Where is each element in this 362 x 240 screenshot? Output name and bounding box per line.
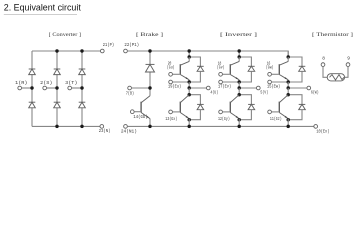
upper diode return wire: [239, 71, 251, 82]
inverter leg V P1 bus junction dot: [237, 49, 240, 52]
lower gate terminal 11(Gz): [268, 110, 272, 114]
column wire sense to output: [287, 82, 289, 88]
brake gate wire 14(Gb): [130, 110, 134, 114]
inverter leg V bridge junction dot: [237, 55, 240, 58]
upper diode return wire: [189, 71, 200, 82]
lower IGBT QV-: [230, 95, 239, 119]
svg-text:1(R): 1(R): [15, 80, 27, 86]
thermistor lead wires: [323, 66, 348, 77]
lower IGBT QW-: [279, 95, 288, 119]
upper gate terminal 20(Gu): [169, 72, 173, 76]
svg-text:(Gv): (Gv): [217, 65, 225, 71]
inverter leg U top bridge wire: [189, 51, 200, 66]
converter leg 3 column wire: [81, 51, 83, 69]
upper freewheel diode DU+: [197, 66, 204, 71]
svg-text:[ Inverter ]: [ Inverter ]: [220, 32, 257, 38]
svg-text:2. Equivalent circuit: 2. Equivalent circuit: [4, 2, 81, 12]
lower freewheel diode DU-: [197, 104, 204, 109]
terminal 7(B): [128, 86, 132, 90]
thermistor terminal a: [321, 63, 325, 67]
upper IGBT QU+ collector wire: [188, 57, 190, 62]
upper gate terminal 16(Gw): [268, 72, 272, 76]
lower emitter wire: [287, 119, 289, 127]
lower gate terminal 12(Gy): [219, 110, 223, 114]
svg-text:15(Ew): 15(Ew): [267, 84, 280, 90]
svg-text:[ Thermistor ]: [ Thermistor ]: [312, 32, 353, 38]
converter upper diode D3: [54, 69, 61, 75]
lower diode return junction dot: [237, 118, 240, 121]
node W output junction: [286, 86, 289, 89]
upper IGBT QV+ collector wire: [238, 57, 240, 62]
leg W N1 junction dot: [286, 125, 289, 128]
node U sense junction: [187, 80, 190, 83]
node B junction: [148, 86, 151, 89]
svg-text:19(Eu): 19(Eu): [168, 84, 181, 90]
upper emitter sense terminal 19(Eu): [169, 80, 173, 84]
terminal 10(Ex) on N1 bus: [314, 125, 318, 129]
lower diode return junction dot: [286, 118, 289, 121]
svg-text:[ Converter ]: [ Converter ]: [49, 32, 81, 38]
column wire output to lower bridge: [188, 88, 190, 95]
upper emitter wire: [188, 80, 190, 82]
svg-text:(Gw): (Gw): [266, 65, 274, 71]
upper IGBT QV+: [230, 61, 239, 79]
converter N bus wire: [32, 125, 100, 127]
upper IGBT QU+: [180, 61, 189, 79]
terminal 21(P): [100, 49, 104, 53]
node 2(S) junction: [55, 86, 58, 89]
inverter leg W top bridge wire: [288, 51, 302, 66]
svg-text:6(W): 6(W): [311, 90, 319, 96]
upper freewheel diode DV+: [248, 66, 255, 71]
upper IGBT QW+: [279, 61, 288, 79]
svg-text:5(V): 5(V): [260, 90, 268, 96]
lower IGBT QU-: [180, 95, 189, 119]
svg-text:24(N1): 24(N1): [121, 129, 137, 135]
lower diode return junction dot: [187, 118, 190, 121]
node W sense junction: [286, 80, 289, 83]
lower freewheel diode DV-: [248, 104, 255, 109]
terminal 2(S): [43, 86, 47, 90]
upper emitter wire: [287, 80, 289, 82]
terminal 22(P1): [124, 49, 128, 53]
converter lower diode D4: [54, 102, 61, 108]
output terminal 4(U): [189, 87, 206, 89]
converter N bus junction dots: [55, 125, 58, 128]
column wire output to lower bridge: [238, 88, 240, 95]
upper freewheel diode DW+: [299, 66, 306, 71]
upper emitter sense terminal 15(Ew): [268, 80, 272, 84]
svg-text:4(U): 4(U): [210, 90, 218, 96]
svg-text:21(P): 21(P): [103, 42, 114, 48]
thermistor body: [327, 74, 344, 81]
brake freewheel diode: [146, 64, 155, 72]
upper emitter sense terminal 17(Ev): [219, 80, 223, 84]
svg-text:3(T): 3(T): [65, 80, 77, 86]
node V sense junction: [237, 80, 240, 83]
upper emitter wire: [238, 80, 240, 82]
upper gate terminal 18(Gv): [219, 72, 223, 76]
terminal 1(R): [18, 86, 22, 90]
svg-text:8: 8: [322, 56, 325, 62]
lower gate terminal 13(Gx): [169, 110, 173, 114]
brake column wire: [149, 51, 151, 64]
brake P1 junction dot: [148, 49, 151, 52]
inverter leg U bridge junction dot: [187, 55, 190, 58]
svg-text:13(Gx): 13(Gx): [165, 116, 177, 122]
upper diode return wire: [288, 71, 302, 82]
node 1(R) junction: [30, 86, 33, 89]
converter upper diode D1: [29, 69, 36, 75]
lower bridge wire: [288, 95, 302, 105]
lower diode return wire: [239, 110, 251, 120]
svg-text:22(P1): 22(P1): [124, 42, 139, 48]
upper IGBT QW+ collector wire: [287, 57, 289, 62]
node V output junction: [237, 86, 240, 89]
P1 bus wire (brake to inverter): [127, 51, 288, 57]
converter P bus wire: [32, 50, 101, 52]
converter leg 1 column wire: [31, 51, 33, 69]
svg-text:14(Gb): 14(Gb): [133, 114, 147, 120]
output terminal 6(W): [288, 87, 307, 89]
svg-text:7(B): 7(B): [126, 90, 134, 96]
svg-text:17(Ev): 17(Ev): [218, 84, 231, 90]
lower diode return wire: [288, 110, 302, 120]
svg-text:12(Gy): 12(Gy): [218, 116, 230, 122]
lower bridge junction dot: [237, 93, 240, 96]
N1 bus wire: [127, 125, 313, 127]
lower emitter wire: [238, 119, 240, 127]
title underline: [4, 13, 77, 15]
leg U N1 junction dot: [187, 125, 190, 128]
svg-text:(Gu): (Gu): [167, 65, 175, 71]
leg V N1 junction dot: [237, 125, 240, 128]
svg-text:2(S): 2(S): [40, 80, 52, 86]
column wire output to lower bridge: [287, 88, 289, 95]
lower bridge junction dot: [187, 93, 190, 96]
lower diode return wire: [189, 110, 200, 120]
node U output junction: [187, 86, 190, 89]
svg-text:11(Gz): 11(Gz): [270, 116, 282, 122]
converter lower diode D2: [29, 102, 36, 108]
inverter leg V top bridge wire: [239, 51, 251, 66]
lower freewheel diode DW-: [299, 104, 306, 109]
lower emitter wire: [188, 119, 190, 127]
svg-text:10(Ex): 10(Ex): [316, 128, 329, 134]
brake IGBT Q7: [141, 96, 150, 119]
terminal 23(N): [100, 125, 104, 129]
lower bridge junction dot: [286, 93, 289, 96]
inverter leg U P1 bus junction dot: [187, 49, 190, 52]
converter lower diode D6: [79, 102, 86, 108]
converter upper diode D5: [79, 69, 86, 75]
column wire sense to output: [188, 82, 190, 88]
svg-text:[ Brake ]: [ Brake ]: [136, 32, 163, 38]
svg-text:23(N): 23(N): [99, 128, 111, 134]
thermistor terminal b: [346, 63, 350, 67]
converter leg 2 column wire: [56, 51, 58, 69]
lower bridge wire: [239, 95, 251, 105]
converter P bus junction dots: [55, 49, 58, 52]
inverter leg W bridge junction dot: [286, 55, 289, 58]
node 3(T) junction: [80, 86, 83, 89]
output terminal 5(V): [239, 87, 256, 89]
terminal 24(N1): [124, 125, 128, 129]
terminal 3(T): [68, 86, 72, 90]
lower bridge wire: [189, 95, 200, 105]
column wire sense to output: [238, 82, 240, 88]
svg-text:9: 9: [347, 56, 350, 62]
brake N1 junction dot: [148, 125, 151, 128]
